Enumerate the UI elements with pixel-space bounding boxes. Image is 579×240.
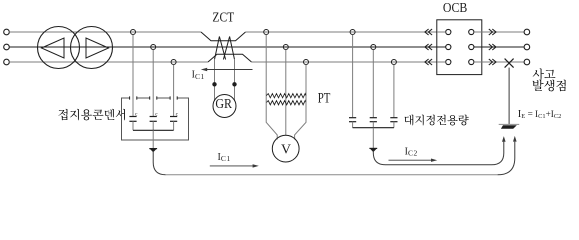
label fault point (Korean, line 1) [533,68,544,80]
arrow Ic2 along return line [389,159,434,161]
resistor PT winding lower [266,101,306,105]
wire phase A breaker to terminal [474,31,524,33]
wire Ic1 ground return (left curve) [153,151,165,175]
node tap phase C to line capacitance bank [391,60,396,65]
breaker contact right phase B [469,44,474,49]
breaker contact left phase A [446,29,451,34]
resistor PT winding upper [266,94,306,98]
drawout chevrons right phase C [489,59,496,65]
junction dot right ZCT lead [232,82,236,86]
node tap phase B to line capacitance bank [371,45,376,50]
svg-text:V: V [281,142,291,157]
wire tap A to grounding capacitor 1 [132,35,134,116]
wire tap A to line capacitance 1 [352,35,354,118]
wire tap C to line capacitance 3 [393,65,395,118]
node tap phase B to PT [283,45,288,50]
node tap phase B to grounding capacitor bank [151,45,156,50]
wire Ic2 return path [373,142,504,165]
source terminal phase C [4,59,10,65]
wire ZCT secondary right lead [234,59,236,101]
junction dot left ZCT lead [212,82,216,86]
wire PT right end [295,96,306,140]
arrow current down (capacitance bank) [370,148,377,152]
relay GR [213,95,236,118]
wire phase A inside breaker [437,31,446,33]
ZCT secondary zigzag winding [215,37,235,60]
label grounding capacitor (Korean) [58,109,67,120]
transformer secondary winding circle [71,27,113,69]
transformer primary winding circle [38,27,80,69]
node tap phase A to PT [264,30,269,35]
breaker contact left phase C [446,59,451,64]
capacitor grounding C2 [150,116,157,118]
arrow Ic1 toward GR [205,69,253,71]
wire capacitor common bar [133,129,174,131]
wire tap B to PT [285,50,287,136]
wire capacitance bank downlead [372,128,374,149]
wire bus phase C right [252,61,446,63]
wire phase C breaker to terminal [474,61,524,63]
svg-text:IC2: IC2 [405,146,418,157]
source terminal phase A [4,29,10,35]
label fault point (Korean, line 2) [533,80,544,91]
arrow IE up (outer) [513,136,517,142]
node tap phase A to grounding capacitor bank [131,30,136,35]
svg-text:OCB: OCB [443,1,467,16]
arrow IE up (inner) [502,136,506,142]
capacitor line-to-ground C3 [390,117,397,119]
wire ZCT primary phase A (narrowed) [201,32,246,41]
voltmeter V [272,135,299,162]
enclosure entry ticks [130,96,178,99]
wire line capacitance common bar [353,127,394,129]
wire phase B breaker to terminal [474,46,524,48]
node tap phase A to line capacitance bank [350,30,355,35]
wire tap B to grounding capacitor 2 [152,50,154,116]
load terminal phase A [524,29,530,35]
arrow current down (grounding bank) [150,149,157,153]
arrow Ic1 along ground line [210,165,255,167]
node tap phase C to PT [304,60,309,65]
wire tap A to PT [265,35,267,96]
source terminal phase B [4,44,10,50]
capacitor line-to-ground C2 [370,117,377,119]
drawout chevrons left phase B [425,44,432,50]
wire tap C to PT [305,65,307,96]
label line-to-ground capacitance (Korean) [404,115,413,126]
grounding capacitor enclosure box [122,98,189,140]
drawout chevrons right phase B [489,44,496,50]
wire fault to earth [508,68,510,125]
wire bus phase C left [9,61,208,63]
svg-text:GR: GR [215,97,232,112]
earth electrode bar [499,123,520,125]
capacitor grounding C1 [129,116,136,118]
svg-text:PT: PT [318,91,331,107]
wire grounding bank downlead [152,130,154,148]
wire ground return right curve up [498,142,515,175]
wire bus phase A left [9,31,201,33]
svg-text:IC1: IC1 [192,70,205,81]
drawout chevrons right phase A [489,29,496,35]
wire PT left end [266,96,277,140]
transformer delta symbol right [86,38,109,58]
breaker contact right phase C [469,59,474,64]
wire ZCT primary phase C (narrowed) [208,54,252,62]
wire bus phase B [9,46,445,48]
capacitor grounding C3 [170,116,177,118]
wire phase C inside breaker [437,61,446,63]
wire tap C to grounding capacitor 3 [173,65,175,116]
breaker OCB enclosure [437,20,482,75]
load terminal phase B [524,44,530,50]
transformer delta symbol left [42,38,65,58]
svg-text:IC1: IC1 [218,152,231,163]
fault point X mark [505,59,514,68]
drawout chevrons left phase C [425,59,432,65]
wire phase B inside breaker [437,46,446,48]
svg-text:ZCT: ZCT [212,9,234,24]
wire bus phase A right [246,31,446,33]
wire ZCT secondary left lead [214,59,216,101]
breaker contact left phase B [446,44,451,49]
wire tap B to line capacitance 2 [372,50,374,118]
drawout chevrons left phase A [425,29,432,35]
load terminal phase C [524,59,530,65]
capacitor line-to-ground C1 [349,117,356,119]
node tap phase C to grounding capacitor bank [171,60,176,65]
wire ground return line [166,174,498,176]
breaker contact right phase A [469,29,474,34]
